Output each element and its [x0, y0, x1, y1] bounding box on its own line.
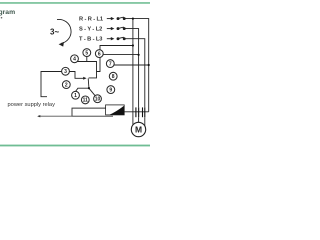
svg-text:11: 11	[83, 98, 89, 104]
svg-text:5: 5	[85, 50, 88, 56]
svg-text:6: 6	[98, 51, 101, 57]
svg-text:gram: gram	[0, 9, 15, 16]
svg-text:7: 7	[109, 61, 112, 67]
svg-text:1: 1	[74, 93, 77, 99]
svg-text:T - B - L3: T - B - L3	[79, 37, 102, 43]
svg-text:2: 2	[65, 82, 68, 88]
svg-text:10: 10	[95, 96, 101, 102]
svg-text:3~: 3~	[50, 27, 59, 36]
svg-text:M: M	[135, 125, 142, 135]
svg-text:3: 3	[64, 69, 67, 75]
svg-text:R - R - L1: R - R - L1	[79, 17, 103, 23]
svg-text:S - Y - L2: S - Y - L2	[79, 27, 102, 33]
svg-text:4: 4	[73, 57, 76, 63]
svg-text:9: 9	[109, 87, 112, 93]
svg-text:power supply relay: power supply relay	[8, 102, 56, 108]
svg-text:8: 8	[112, 74, 115, 80]
